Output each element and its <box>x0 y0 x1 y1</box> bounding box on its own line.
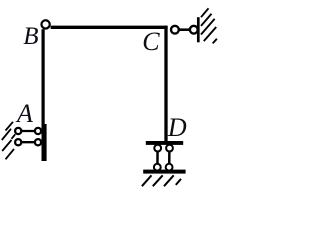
wall hatch A stroke between circles <box>12 134 16 139</box>
link bar A upper <box>18 130 38 132</box>
wall hatch C stroke 3 <box>201 19 215 35</box>
svg-text:C: C <box>142 27 160 56</box>
link stem D left <box>156 148 159 167</box>
wire column C-D <box>164 26 167 143</box>
wall hatch A stroke 1 <box>6 122 14 131</box>
wall hatch A stroke 2 <box>2 129 11 140</box>
pin circle D bottom-left <box>154 164 161 171</box>
pin circle D top-left <box>154 145 161 152</box>
wall hatch C stroke 4 <box>204 27 216 41</box>
top plate of D support <box>146 141 183 145</box>
ground hatch D stroke 3 <box>164 175 174 186</box>
wire beam B-C <box>51 26 168 29</box>
link bar A lower <box>18 141 38 143</box>
support plate at A <box>42 124 47 161</box>
ground hatch D stroke 2 <box>153 175 163 186</box>
wall hatch A stroke 4 <box>6 149 15 159</box>
svg-text:B: B <box>23 23 38 50</box>
pin circle A upper-left <box>15 128 21 134</box>
pin circle D bottom-right <box>166 164 173 171</box>
ground hatch D stroke 1 <box>142 175 152 186</box>
hinge circle at B <box>41 20 49 28</box>
pin circle A upper-right <box>35 128 41 134</box>
wall hatch C stroke 5 <box>213 39 217 44</box>
wall hatch C stroke 2 <box>201 14 212 26</box>
ground hatch D stroke 4 <box>176 179 181 185</box>
wall hatch A stroke 3 <box>2 140 11 151</box>
wall hatch C stroke 1 <box>201 8 209 17</box>
link stem D right <box>168 148 171 167</box>
pin circle link C inner <box>171 26 179 34</box>
pin circle A lower-right <box>35 139 41 145</box>
bottom plate of D support <box>143 170 185 174</box>
svg-text:A: A <box>15 99 33 128</box>
wall bar at C support <box>197 17 200 42</box>
pin circle link C outer <box>190 26 198 34</box>
svg-text:D: D <box>167 113 187 142</box>
pin circle D top-right <box>166 145 173 152</box>
pin circle A lower-left <box>15 139 21 145</box>
wire column B-A <box>41 29 44 161</box>
link bar C <box>180 28 190 31</box>
